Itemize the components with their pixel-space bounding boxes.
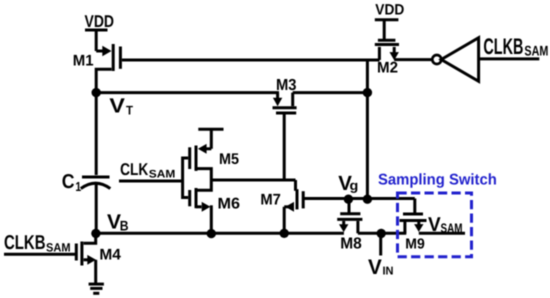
svg-text:VDD: VDD [85,12,115,31]
svg-text:V: V [428,214,441,236]
svg-text:IN: IN [383,266,394,278]
svg-text:M6: M6 [218,196,241,213]
svg-text:V: V [109,94,125,117]
svg-text:Sampling Switch: Sampling Switch [378,172,497,189]
svg-text:M5: M5 [219,151,239,168]
svg-text:M7: M7 [260,192,281,209]
svg-text:M9: M9 [405,237,425,253]
svg-text:M1: M1 [73,52,94,69]
svg-text:V: V [368,256,382,279]
svg-text:SAM: SAM [441,220,463,235]
svg-text:T: T [126,104,133,118]
svg-text:SAM: SAM [46,240,71,254]
svg-text:M3: M3 [276,77,297,94]
svg-text:SAM: SAM [524,43,548,59]
svg-text:CLK: CLK [120,160,149,179]
svg-text:M2: M2 [377,60,398,77]
svg-text:g: g [350,178,359,193]
svg-text:SAM: SAM [149,169,176,181]
svg-text:CLKB: CLKB [483,34,523,59]
svg-text:B: B [120,217,129,233]
svg-text:CLKB: CLKB [4,232,46,254]
svg-text:VDD: VDD [375,2,404,19]
svg-text:C: C [62,171,75,193]
svg-text:1: 1 [75,179,81,194]
svg-text:M8: M8 [340,236,362,253]
svg-text:M4: M4 [99,246,121,263]
